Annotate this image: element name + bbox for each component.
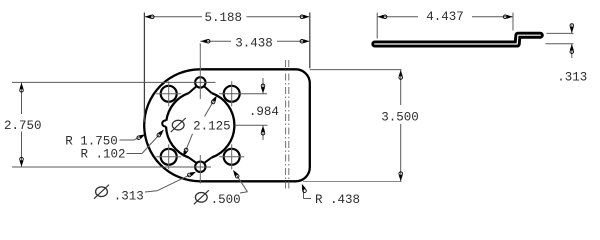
leader Ø 2.125 upper (205, 97, 217, 117)
dimension 2.750 line (21, 82, 23, 114)
dimension 5.188 extension left (143, 13, 145, 123)
vertical centerline through holes (top) (199, 44, 201, 100)
dimension .984 extension bottom (235, 124, 268, 126)
dimension .984 extension top / UR hole crosshair (219, 93, 267, 95)
top small hole Ø.313 (195, 77, 205, 87)
dimension 2.750 extension top (12, 81, 216, 83)
dimension 3.438 extension left (199, 44, 201, 46)
four bolt holes Ø.500 (161, 86, 177, 102)
dimension 3.500 line (400, 70, 402, 105)
leader R .102 (127, 153, 143, 155)
vertical centerline through holes (bottom) (199, 155, 201, 184)
svg-text:2.750: 2.750 (4, 119, 42, 133)
label Ø 2.125 (172, 120, 184, 130)
side view plate profile with Z-bend (375, 35, 541, 44)
dimension 4.437 extension left (376, 13, 378, 39)
hole crosshair centerlines (168, 81, 170, 106)
leader Ø .500 (240, 192, 248, 193)
shared right extension line (309, 13, 311, 69)
svg-text:R .102: R .102 (80, 148, 125, 162)
dimension 4.437 line (377, 16, 418, 18)
label Ø .313 (96, 187, 108, 197)
dimension 3.500 extension bottom (303, 181, 402, 183)
plate outline (main top view) (144, 69, 310, 181)
dimension 2.750 extension bottom (12, 166, 211, 168)
keyway notch bump R.102 on left edge of big hole (162, 121, 166, 127)
dimension 5.188 line (144, 16, 202, 18)
dimension 3.438 line (200, 40, 231, 42)
svg-text:.500: .500 (211, 193, 241, 207)
svg-text:2.125: 2.125 (193, 120, 231, 134)
label Ø .500 (195, 192, 207, 202)
dimension .313 extension top (547, 32, 574, 34)
keyhole slot connector lines bottom (189, 158, 197, 164)
dimension 3.500 extension top (310, 69, 402, 71)
big center hole Ø2.125 (arc segments with keyhole gaps) (212, 93, 235, 157)
keyhole slot connector lines top (189, 86, 197, 93)
dimension .313 arrows (571, 25, 573, 34)
svg-text:3.500: 3.500 (381, 110, 419, 124)
leader R .438 (304, 198, 312, 200)
svg-text:.313: .313 (557, 71, 587, 85)
svg-text:R .438: R .438 (315, 193, 360, 207)
leader R 1.750 (120, 139, 135, 141)
leader Ø .313 (145, 191, 157, 192)
svg-text:5.188: 5.188 (205, 11, 243, 25)
dimension 4.437 extension right (512, 13, 514, 31)
leader Ø 2.125 lower (184, 134, 193, 156)
svg-text:3.438: 3.438 (235, 36, 273, 50)
svg-text:.313: .313 (114, 189, 144, 203)
dimension .313 extension bottom (546, 43, 574, 45)
dimension .984 arrows (262, 78, 264, 94)
svg-text:R 1.750: R 1.750 (65, 135, 118, 149)
svg-text:4.437: 4.437 (426, 10, 464, 24)
bend lines (double dash-dot) (285, 60, 287, 191)
svg-text:.984: .984 (249, 105, 279, 119)
bottom small hole Ø.313 (195, 162, 205, 172)
